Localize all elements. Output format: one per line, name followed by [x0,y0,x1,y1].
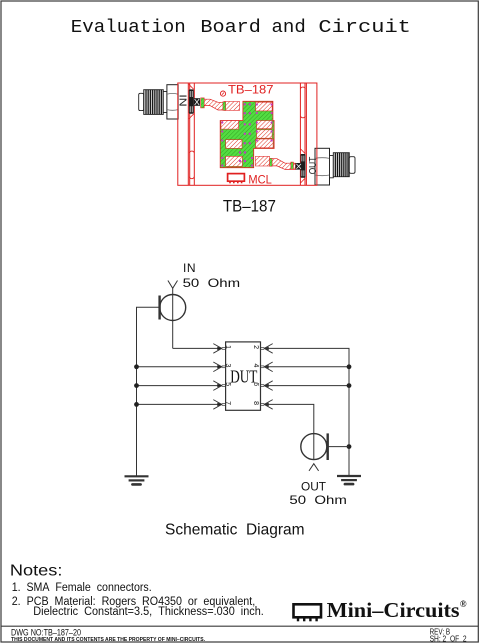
pin 7 arrow [213,400,225,410]
OUT shell bar [327,433,329,460]
green ground plane (hatched) [220,101,274,167]
IN center pin (black, X mark) [194,98,200,106]
input arrow (V) [168,281,178,289]
MCL logo icon (red) [228,174,245,184]
output microstrip trace (red hatch) [272,159,296,170]
DUT block U1 [226,342,261,410]
svg-text:MCL: MCL [248,172,272,186]
SMA connector J2 (OUT, right) [315,148,355,185]
svg-text:DWG NO:TB–187–20: DWG NO:TB–187–20 [11,627,81,637]
wire: pin 8 to OUT connector [264,404,314,459]
svg-text:8: 8 [252,401,259,405]
pin 4 arrow [261,362,273,372]
wire: pin 4 row [264,366,349,368]
Mini-Circuits logo icon [294,604,322,621]
OUT pin bar red corner flags [301,149,306,183]
pin 5 arrow [213,381,225,391]
input trace via pad (green) [223,102,226,111]
svg-text:IN: IN [183,261,196,275]
svg-text:6: 6 [252,382,259,386]
input launch pad (green) [201,98,205,108]
svg-text:EvaluationBoardandCircuit: EvaluationBoardandCircuit [71,16,411,38]
mounting slot arcs [189,87,305,179]
pin 3 arrow [213,362,225,372]
svg-text:SH: 2 OF 2: SH: 2 OF 2 [430,634,467,643]
svg-text:50 Ohm: 50 Ohm [289,493,347,507]
pin 2 arrow [261,344,273,354]
ground (left) [125,476,149,484]
connector OUT circle [301,434,327,460]
footer separator line [1,625,478,627]
svg-text:OUT: OUT [301,479,327,493]
svg-text:5: 5 [224,382,231,386]
OUT connector pin bar (black) [301,154,306,178]
pin 6 arrow [261,381,273,391]
input microstrip trace (red hatch) [204,99,225,110]
wire: pin 6 row [264,385,349,387]
PCB board outline (red) [178,83,317,185]
ground (right) [337,476,361,484]
IN center conductor wire [172,288,174,348]
junction dots left bus [134,364,139,406]
junction dots right bus [347,364,352,449]
svg-text:7: 7 [224,401,231,405]
pin 8 arrow [261,400,273,410]
IN connector pin bar (black) [189,89,194,113]
svg-text:IN: IN [176,94,188,106]
output launch pad (green) [291,162,294,169]
via dots (magenta) [221,103,273,166]
wire: OUT shell to right bus [328,446,349,448]
svg-text:TB–187: TB–187 [223,198,276,216]
svg-text:50 Ohm: 50 Ohm [183,276,241,290]
pin 1 arrow [213,344,225,354]
svg-text:THIS DOCUMENT AND ITS CONTENTS: THIS DOCUMENT AND ITS CONTENTS ARE THE P… [11,637,205,643]
svg-text:4: 4 [252,364,259,368]
component pads (red hatch) [221,102,273,167]
wire: pin 7 row [137,403,222,405]
wire: pin 2 row to right bus [264,348,349,476]
wire: pin 5 row [137,385,222,387]
OUT center pin (black, X mark) [296,163,302,170]
svg-text:3: 3 [224,364,231,368]
output trace via pad (green) [270,158,273,166]
svg-text:Dielectric Constant=3.5, Thi: Dielectric Constant=3.5, Thickness=.030 … [33,606,263,618]
svg-text:®: ® [460,599,467,609]
svg-text:2: 2 [252,345,259,349]
SMA connector J1 (IN, left) [139,85,178,119]
output arrow (^) [309,464,319,471]
silkscreen circle marker [220,91,225,96]
svg-text:TB–187: TB–187 [228,83,274,97]
svg-text:Schematic Diagram: Schematic Diagram [165,522,305,539]
wire: IN shell to left bus [137,307,160,476]
svg-text:Notes:: Notes: [10,563,63,580]
wire: pin 3 row [137,366,222,368]
IN shell bar [158,296,160,320]
wire: pin 1 row [173,347,222,349]
svg-text:1: 1 [224,345,231,349]
svg-text:1. SMA Female connectors.: 1. SMA Female connectors. [12,582,152,594]
IN pin bar red corner flags [189,84,194,119]
connector IN circle [160,295,186,321]
svg-text:Mini–Circuits: Mini–Circuits [327,598,460,622]
pin numbers [224,345,259,405]
svg-text:OUT: OUT [307,156,319,174]
